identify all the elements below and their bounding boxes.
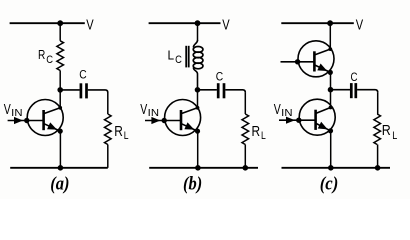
svg-text:(a): (a) xyxy=(50,174,69,195)
circuit (b) supply rail xyxy=(149,22,221,24)
svg-text:(c): (c) xyxy=(320,174,339,195)
svg-text:R: R xyxy=(252,124,261,140)
node V supply junction (a) xyxy=(57,20,63,26)
svg-text:C: C xyxy=(216,71,223,84)
transistor Q2 input arrowhead xyxy=(151,117,160,124)
collector node junction dot (a) xyxy=(57,87,63,93)
transistor Q1 base wire xyxy=(8,120,44,122)
transistor Q3 (upper) emitter arrowhead xyxy=(317,64,327,71)
svg-text:IN: IN xyxy=(11,108,22,119)
wire rail to LC (b) xyxy=(197,23,199,41)
svg-text:R: R xyxy=(382,123,391,139)
ground rail (b) xyxy=(149,167,258,169)
transistor Q2 circle xyxy=(165,100,201,136)
transistor Q1 emitter lead xyxy=(44,124,60,131)
resistor RL (c) xyxy=(374,114,381,145)
transistor Q4 (lower) collector lead xyxy=(316,108,330,114)
capacitor C(b) right wire xyxy=(225,90,245,93)
wire node to lower collector (c) xyxy=(330,90,332,108)
svg-text:(b): (b) xyxy=(183,174,202,195)
transistor Q2 emitter lead xyxy=(182,124,198,131)
emitter wire to ground (a) xyxy=(59,131,61,168)
transistor Q2 emitter arrowhead xyxy=(184,122,194,129)
svg-text:C: C xyxy=(351,71,358,84)
transistor Q1 emitter node xyxy=(58,129,63,134)
svg-text:L: L xyxy=(124,130,129,142)
load column wire (a) xyxy=(107,92,109,114)
emitter ground junction dot (b) xyxy=(195,165,201,171)
capacitor C(c) plate 1 xyxy=(350,83,353,98)
capacitor C(b) plate 1 xyxy=(217,83,220,98)
transistor Q1 emitter arrowhead xyxy=(47,122,57,129)
inductor LC coil xyxy=(193,40,197,47)
transistor Q3 (upper) collector lead xyxy=(315,49,330,55)
transistor Q2 emitter node xyxy=(195,129,200,134)
capacitor C(c) right wire xyxy=(357,90,378,93)
svg-text:L: L xyxy=(261,130,266,142)
capacitor C(a) left wire xyxy=(60,89,79,91)
RL ground junction dot (b) xyxy=(243,165,249,171)
svg-text:R: R xyxy=(114,124,123,140)
circuit (a) supply rail xyxy=(10,22,85,24)
capacitor C(c) left wire xyxy=(331,89,351,91)
svg-text:V: V xyxy=(222,17,230,34)
capacitor C(a) plate 2 xyxy=(85,83,88,98)
svg-text:V: V xyxy=(86,17,94,34)
svg-text:V: V xyxy=(274,102,281,118)
transistor Q2 base junction dot xyxy=(162,118,167,123)
transistor Q1 collector node xyxy=(58,106,62,110)
transistor Q4 (lower) emitter lead xyxy=(316,124,330,131)
transistor Q2 collector node xyxy=(196,106,200,110)
load column wire (b) xyxy=(244,92,246,114)
resistor RC xyxy=(57,41,64,71)
transistor Q4 (lower) base bar xyxy=(314,110,317,130)
svg-text:V: V xyxy=(140,102,147,118)
transistor Q4 (lower) base junction dot xyxy=(296,118,301,123)
inductor LC core bars xyxy=(185,46,187,68)
svg-text:C: C xyxy=(175,54,182,66)
wire RL to ground rail (c) xyxy=(377,145,379,168)
capacitor C(b) plate 2 xyxy=(223,83,226,98)
emitter wire to ground (b) xyxy=(197,131,199,168)
transistor Q3 (upper) emitter node xyxy=(328,70,333,75)
transistor Q3 (upper) circle xyxy=(298,41,334,77)
svg-text:C: C xyxy=(79,68,86,81)
emitter wire to ground (c) xyxy=(330,131,332,168)
svg-text:V: V xyxy=(356,17,364,34)
capacitor C(a) right wire xyxy=(88,90,108,93)
wire upper emitter to node (c) xyxy=(330,72,332,89)
load column wire (c) xyxy=(377,92,379,114)
resistor RL (b) xyxy=(242,114,249,145)
node V supply junction (c) xyxy=(327,20,333,26)
svg-text:V: V xyxy=(4,102,11,118)
svg-text:L: L xyxy=(168,48,175,62)
transistor Q4 (lower) base wire xyxy=(279,119,316,121)
wire node to collector (a) xyxy=(59,90,61,108)
svg-text:IN: IN xyxy=(148,108,159,119)
circuit (c) supply rail xyxy=(281,22,354,24)
transistor Q3 (upper) emitter lead xyxy=(315,65,330,72)
wire RC to node (a) xyxy=(59,71,61,90)
transistor Q1 circle xyxy=(27,100,63,136)
capacitor C(b) left wire xyxy=(198,89,217,91)
collector node junction dot (c) xyxy=(328,87,334,93)
wire RL to ground rail (a) xyxy=(107,145,109,168)
wire rail to upper transistor collector (c) xyxy=(329,23,331,49)
wire node to collector (b) xyxy=(197,90,199,108)
wire rail to RC (a) xyxy=(59,23,61,41)
transistor Q1 base junction dot xyxy=(24,118,29,123)
wire RL to ground rail (b) xyxy=(244,145,246,168)
emitter ground junction dot (c) xyxy=(328,165,334,171)
transistor Q3 (upper) base bar xyxy=(313,51,316,71)
RL ground junction dot (c) xyxy=(375,165,381,171)
emitter ground junction dot (a) xyxy=(58,165,64,171)
transistor Q1 collector lead xyxy=(44,108,60,114)
capacitor C(a) plate 1 xyxy=(80,83,83,98)
node V supply junction (b) xyxy=(195,20,201,26)
resistor RL (a) xyxy=(105,114,112,145)
transistor Q4 (lower) collector node xyxy=(329,106,333,110)
transistor Q3 (upper) collector node xyxy=(328,47,332,51)
transistor Q4 (lower) input arrowhead xyxy=(286,117,295,124)
transistor Q4 (lower) emitter arrowhead xyxy=(318,122,328,130)
svg-text:C: C xyxy=(46,54,53,66)
transistor Q2 base wire xyxy=(145,120,181,122)
svg-text:L: L xyxy=(392,130,397,142)
transistor Q2 collector lead xyxy=(182,108,198,114)
capacitor C(c) plate 2 xyxy=(354,83,357,98)
transistor Q1 input arrowhead xyxy=(14,117,23,124)
transistor Q3 (upper) base junction dot xyxy=(295,59,300,64)
transistor Q1 base bar xyxy=(42,110,45,130)
ground rail (c) xyxy=(282,167,391,169)
collector node junction dot (b) xyxy=(195,87,201,93)
svg-text:R: R xyxy=(38,48,45,62)
transistor Q2 base bar xyxy=(180,110,183,130)
inductor LC exit wire xyxy=(193,68,197,88)
ground rail (a) xyxy=(10,167,108,169)
transistor Q3 (upper) base wire xyxy=(281,61,315,63)
transistor Q4 (lower) emitter node xyxy=(328,128,333,133)
transistor Q4 (lower) circle xyxy=(299,99,335,135)
